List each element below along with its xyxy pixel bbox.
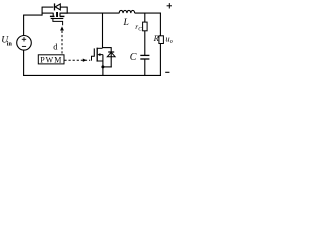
- svg-text:C: C: [130, 52, 137, 63]
- transistor V1 source stub: [52, 13, 54, 16]
- wire MOSFET V1 right lead: [60, 12, 68, 14]
- transistor V1 drain stub: [59, 13, 61, 16]
- transistor V1 gate bar: [51, 18, 64, 20]
- diode VD1 cathode bar: [54, 3, 56, 10]
- transistor V1 channel segment right: [60, 15, 65, 17]
- wire from coil to output corner: [135, 12, 161, 14]
- transistor V2 channel bar: [96, 48, 98, 62]
- V2 source lead down: [102, 55, 104, 68]
- body diode VD2 triangle: [107, 52, 115, 56]
- wire source top lead: [23, 15, 25, 35]
- body diode VD2 cathode bar: [108, 51, 114, 53]
- gate drive arrow right to V2: [83, 59, 87, 62]
- wire right side of diode loop: [66, 7, 68, 14]
- resistor r_C box: [143, 22, 148, 31]
- wire capacitor to bottom rail: [144, 59, 146, 76]
- switch node drop wire: [102, 13, 104, 48]
- wire diode right lead: [60, 6, 67, 8]
- transistor V1 channel segment middle with body blob: [56, 12, 58, 17]
- node jog to body diode branch: [102, 47, 111, 49]
- svg-text:PWM: PWM: [40, 55, 62, 64]
- svg-text:R: R: [153, 33, 160, 43]
- transistor V2 source stub: [97, 60, 103, 62]
- wire r_C to capacitor: [144, 31, 146, 55]
- wire MOSFET V1 left lead: [42, 12, 54, 14]
- diode VD1 triangle: [55, 4, 60, 10]
- svg-text:in: in: [7, 42, 13, 48]
- wire left riser to diode level: [41, 7, 43, 16]
- dashed vertical drive line from PWM: [61, 31, 63, 55]
- body diode VD2 cathode lead: [110, 47, 112, 67]
- transistor V1 gate lead: [53, 19, 63, 26]
- transistor V2 body stub: [100, 54, 103, 56]
- wire R to bottom rail: [159, 44, 161, 76]
- resistor R box: [159, 36, 164, 44]
- wire source top horizontal: [23, 14, 42, 16]
- PWM box: [38, 55, 64, 64]
- minus sign inside source: [22, 45, 26, 47]
- bottom rail wire: [23, 74, 161, 76]
- inductor L coil: [119, 10, 135, 13]
- plus polarity mark top right: [167, 3, 172, 8]
- main top wire after switch: [60, 12, 120, 14]
- label r_C: [135, 22, 142, 32]
- minus polarity mark bottom right: [165, 71, 169, 73]
- voltage source U_in circle: [17, 36, 32, 51]
- junction dot: [101, 65, 104, 68]
- svg-text:d: d: [53, 41, 58, 51]
- wire r_C branch top: [144, 13, 146, 22]
- transistor V2 gate bar: [93, 48, 95, 56]
- transistor V1 channel segment left: [50, 15, 55, 17]
- svg-text:L: L: [123, 17, 129, 28]
- svg-text:o: o: [170, 39, 173, 45]
- capacitor C top plate: [140, 54, 149, 56]
- label U_in: [1, 36, 12, 48]
- label u_o: [165, 33, 172, 45]
- svg-text:C: C: [138, 26, 142, 32]
- wire diode anode-side lead: [42, 6, 54, 8]
- wire node to bottom rail: [102, 67, 104, 76]
- wire right branch down to R: [159, 13, 161, 36]
- dashed horizontal drive line to V2: [64, 59, 90, 61]
- transistor V2 drain stub: [97, 47, 103, 49]
- V2 gate lead riser: [92, 56, 95, 60]
- transistor V2 body arrow: [97, 53, 100, 56]
- wire source-anode join: [102, 66, 111, 68]
- plus sign inside source: [22, 37, 26, 41]
- gate drive arrow up to V1: [60, 26, 64, 30]
- wire source bottom lead: [23, 50, 25, 76]
- capacitor C bottom plate: [140, 58, 149, 60]
